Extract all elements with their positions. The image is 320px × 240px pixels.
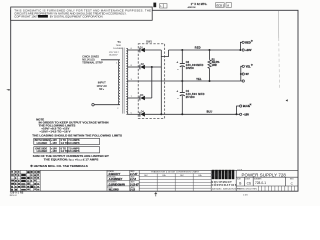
junction dot 0V stub — [240, 73, 242, 75]
wire C1 branch upper — [181, 81, 183, 92]
svg-text:L: L — [160, 4, 162, 8]
capacitor C1 — [180, 93, 185, 96]
svg-text:+10V: +10V — [245, 48, 251, 52]
title block frame lines — [236, 170, 298, 191]
svg-text:ECO 1: ECO 1 — [217, 4, 225, 7]
0V terminal label — [246, 72, 249, 76]
YEL terminal label — [246, 63, 254, 68]
bottom strip top line — [11, 169, 298, 171]
junction dot D2-D3 — [151, 66, 153, 68]
-15V terminal label — [243, 112, 249, 116]
margin note under title block — [243, 194, 248, 196]
svg-text:W.LONG: W.LONG — [109, 188, 119, 191]
svg-text:NUMBER: NUMBER — [254, 178, 262, 180]
junction dot RED-R1 — [209, 49, 211, 51]
svg-text:✳: ✳ — [249, 103, 252, 107]
junction dot YEL-R1 — [209, 80, 211, 82]
svg-text:D.BRIDGMAN: D.BRIDGMAN — [109, 183, 125, 186]
C2 polarity plus — [176, 61, 178, 65]
R1 value label — [212, 58, 220, 67]
primary pin 1 — [116, 62, 118, 64]
wire RED rail — [169, 49, 241, 51]
transformer T1 part number line 1 — [116, 45, 122, 47]
diode D4 — [140, 112, 145, 117]
svg-text:LOADED: LOADED — [37, 150, 48, 153]
junction dot RED bracket — [239, 49, 241, 51]
svg-text:SIZE: SIZE — [237, 178, 242, 180]
svg-text:✳ HEYMAN MFG. CO. TAB TERMINAL: ✳ HEYMAN MFG. CO. TAB TERMINALS — [30, 164, 88, 168]
svg-text:8.5 AMPS: 8.5 AMPS — [68, 150, 80, 153]
secondary tap pin 8 — [131, 65, 133, 67]
svg-text:REV.: REV. — [290, 178, 294, 180]
terminal strip part number note — [109, 52, 120, 57]
svg-text:A: A — [227, 4, 229, 7]
0V output terminal — [242, 73, 244, 75]
svg-text:ARROW: ARROW — [188, 6, 196, 9]
parts list table grid — [11, 170, 41, 191]
svg-text:C: C — [291, 181, 294, 185]
inspection stamp arrow — [155, 193, 157, 197]
junction dot RED-C2 — [181, 49, 183, 51]
svg-text:THE LOADING SHOULD BE WITHIN T: THE LOADING SHOULD BE WITHIN THE FOLLOWI… — [32, 134, 122, 138]
code cell — [245, 178, 251, 185]
svg-text:A.PHINNEY: A.PHINNEY — [108, 178, 123, 181]
svg-text:TERMINAL STRIP: TERMINAL STRIP — [82, 61, 103, 64]
svg-text:16-05648: 16-05648 — [113, 48, 123, 50]
svg-text:1: 1 — [116, 62, 118, 64]
wire C2 to YEL — [181, 67, 183, 81]
BLUE output terminal — [240, 105, 242, 107]
loading limits table box 1 — [34, 138, 100, 144]
drawing border frame — [11, 10, 298, 191]
secondary center tap pin 3 — [131, 79, 133, 81]
svg-text:2-7-67: 2-7-67 — [129, 173, 138, 176]
wire D3 riser to D2 row — [151, 67, 153, 98]
svg-text:60∿: 60∿ — [99, 87, 105, 91]
svg-text:POWER SUPPLY 728: POWER SUPPLY 728 — [242, 172, 287, 177]
svg-text:REV 02: REV 02 — [10, 195, 18, 197]
svg-text:1 3/4: 1 3/4 — [243, 194, 248, 196]
svg-text:CS: CS — [247, 181, 251, 185]
svg-text:1.0 TO: 1.0 TO — [61, 150, 69, 153]
svg-text:−: − — [177, 68, 179, 72]
svg-text:BLU: BLU — [207, 111, 213, 114]
wire C2 branch upper — [181, 50, 183, 63]
drawing title — [242, 172, 287, 177]
-15V terminal bracket — [237, 106, 240, 114]
svg-text:1.0 TO: 1.0 TO — [61, 142, 69, 145]
rectifier assembly DW1 dashed box — [138, 44, 165, 119]
scan speck left margin — [6, 89, 10, 91]
diode D4 label — [141, 110, 145, 113]
RED output terminal — [242, 41, 244, 43]
svg-text:10VDC: 10VDC — [186, 66, 194, 70]
transformer T1 part number line 2 — [113, 48, 123, 50]
number cell — [254, 178, 266, 185]
+10V terminal bracket — [240, 42, 242, 50]
wire BLU rail — [145, 113, 237, 115]
wire jog on +10 rail — [161, 50, 168, 57]
svg-text:2-7-8: 2-7-8 — [129, 178, 136, 181]
svg-text:PRINTED CIRCUIT REV.: PRINTED CIRCUIT REV. — [237, 188, 258, 190]
BLU wire label — [207, 111, 213, 114]
svg-text:−: − — [177, 97, 179, 101]
wire D1 to jog — [145, 49, 161, 51]
YEL output terminal — [242, 65, 244, 67]
svg-text:R.MAXCY: R.MAXCY — [109, 173, 121, 176]
svg-text:✳: ✳ — [251, 63, 254, 67]
secondary tap wire to D2 — [127, 66, 139, 68]
junction dot YEL-C branch — [181, 80, 183, 82]
wire R1 to YEL — [209, 68, 211, 81]
svg-text:g: g — [218, 172, 221, 178]
resistor R1 — [208, 60, 211, 69]
rev cell — [290, 178, 294, 185]
loading limits table box 2 text — [35, 147, 80, 153]
loading limits table box 1 text — [35, 139, 80, 145]
svg-text:LOADED: LOADED — [37, 142, 48, 145]
junction dot BLU bracket — [236, 113, 238, 115]
YEL stub 0V — [241, 73, 242, 75]
svg-text:DW1: DW1 — [146, 41, 152, 44]
wire BLU to -15V terminal — [237, 113, 240, 115]
svg-text:THE EQUATION: I₊₁₀ +I₋₁₅ ≤ 17: THE EQUATION: I₊₁₀ +I₋₁₅ ≤ 17 AMPS — [44, 158, 99, 162]
input terminal circle — [92, 104, 94, 106]
secondary tap pin 5 — [131, 113, 133, 115]
diode D1 label — [140, 46, 144, 49]
YEL wire label — [196, 78, 202, 81]
junction dot bus to BLU rail — [160, 113, 162, 115]
conversion chart title — [151, 171, 200, 174]
svg-text:RED: RED — [195, 47, 201, 50]
svg-text:−15V: −15V — [243, 112, 249, 116]
scan speck — [286, 99, 288, 101]
primary pin 2 — [117, 108, 119, 110]
transformer T1 secondary winding — [126, 48, 128, 114]
wire rectifier bus vertical — [160, 57, 162, 115]
transformer T1 primary winding — [118, 60, 120, 105]
signature block names — [108, 173, 140, 191]
conversion chart headers — [144, 174, 202, 177]
parts list table marks — [11, 171, 40, 191]
BLUE terminal label — [243, 103, 252, 109]
svg-text:728-0-1: 728-0-1 — [255, 181, 266, 185]
C1 polarity plus — [176, 90, 178, 94]
top margin stamp blob — [153, 3, 156, 8]
secondary tap wire to D3 — [127, 97, 139, 99]
junction dot BLU-C1 — [181, 113, 183, 115]
transformer T1 label — [117, 40, 121, 44]
svg-text:2: 2 — [117, 108, 119, 110]
sheet number under parts table — [10, 193, 24, 198]
svg-text:25 VDC: 25 VDC — [186, 95, 195, 99]
diode D2 — [140, 65, 145, 70]
svg-text:−15V: −15V — [51, 142, 57, 145]
wire primary top to terminal strip — [101, 59, 120, 61]
size cell — [237, 178, 242, 185]
svg-text:✳: ✳ — [251, 39, 254, 43]
annotation CINCH JONES terminal strip — [82, 55, 103, 64]
input label — [96, 81, 107, 92]
wire YEL rail — [127, 80, 241, 82]
svg-text:B: B — [239, 181, 241, 185]
maynard massachusetts text — [212, 188, 241, 191]
svg-text:CODE: CODE — [245, 178, 251, 180]
svg-text:CORPORATION: CORPORATION — [212, 183, 238, 187]
svg-text:2-13-67: 2-13-67 — [129, 183, 139, 186]
loading limits table box 2 — [34, 147, 100, 153]
C1 value label — [186, 89, 205, 99]
svg-text:−15V: −15V — [51, 150, 57, 153]
equipment corporation text — [212, 180, 238, 187]
diode D3 — [140, 96, 145, 101]
secondary tap wire to D1 — [127, 49, 139, 51]
+10V output terminal — [242, 49, 244, 51]
svg-text:0V: 0V — [246, 72, 249, 76]
svg-text:TRANSISTOR & DIODE CONVERSION: TRANSISTOR & DIODE CONVERSION CHART — [151, 171, 200, 174]
svg-text:d: d — [212, 172, 215, 178]
proprietary notice box — [11, 7, 153, 20]
svg-text:BY DIGITAL EQUIPMENT CORPORATI: BY DIGITAL EQUIPMENT CORPORATION — [50, 14, 103, 18]
svg-text:YEL: YEL — [196, 78, 202, 81]
svg-text:COPYRIGHT 1967: COPYRIGHT 1967 — [14, 14, 38, 18]
0V terminal bracket — [241, 66, 242, 81]
transformer T1 core — [122, 48, 124, 114]
C2 value label — [186, 60, 204, 70]
-15V output terminal — [240, 113, 242, 115]
+10V terminal label — [245, 48, 251, 52]
wire C1 to BLU — [181, 96, 183, 115]
svg-text:16-05167: 16-05167 — [109, 54, 119, 56]
spare output terminal — [242, 80, 244, 82]
wire input to primary bottom — [94, 104, 120, 106]
secondary tap pin 6 — [131, 48, 133, 50]
svg-text:7408: 7408 — [116, 45, 122, 47]
scan crease line — [278, 11, 281, 88]
svg-text:10W: 10W — [212, 64, 218, 67]
conversion chart grid — [139, 170, 211, 191]
digital logo tiles — [212, 170, 235, 179]
svg-text:+: + — [176, 90, 178, 94]
rectifier assembly DW1 label — [146, 41, 152, 44]
C2 polarity minus — [177, 68, 179, 72]
top margin small revision box — [160, 4, 167, 8]
wire D3 output — [145, 97, 152, 99]
diode D2 label — [141, 63, 145, 66]
diode D1 — [140, 48, 145, 53]
secondary tap wire to D4 — [127, 113, 139, 115]
RED terminal label — [245, 39, 253, 44]
digital logo letters — [212, 172, 235, 178]
signature block text — [108, 170, 136, 189]
wire R1 branch upper — [209, 50, 211, 60]
svg-text:a: a — [228, 172, 231, 178]
svg-text:8.0 AMPS: 8.0 AMPS — [68, 142, 80, 145]
signature block grid — [107, 170, 139, 191]
printed circuit rev cells — [258, 186, 294, 191]
capacitor C2 — [180, 64, 185, 67]
C1 polarity minus — [177, 97, 179, 101]
top margin eco boxes — [216, 3, 232, 8]
secondary tap pin 7 — [131, 96, 133, 98]
printed circuit rev label — [237, 188, 258, 190]
title label — [237, 169, 242, 171]
wire D2 to bus — [145, 66, 161, 68]
YEL stub lower — [241, 80, 242, 82]
svg-text:T1: T1 — [117, 40, 121, 44]
RED wire label — [195, 47, 201, 50]
svg-text:1" X 32 MTG.: 1" X 32 MTG. — [191, 3, 208, 6]
svg-text:2-13: 2-13 — [129, 188, 136, 191]
diode D3 label — [140, 94, 144, 97]
svg-text:+: + — [176, 61, 178, 65]
